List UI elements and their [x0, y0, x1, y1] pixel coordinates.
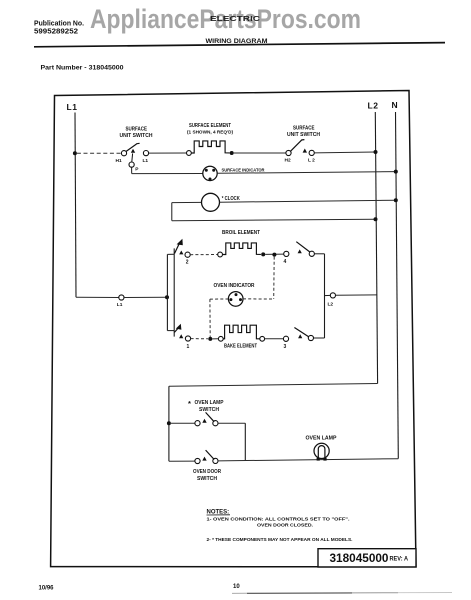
svg-text:OVEN DOOR CLOSED.: OVEN DOOR CLOSED.: [257, 523, 313, 528]
svg-text:BAKE ELEMENT: BAKE ELEMENT: [224, 344, 257, 350]
svg-text:1: 1: [187, 344, 190, 350]
svg-text:SWITCH: SWITCH: [197, 476, 217, 482]
title WIRING DIAGRAM: [206, 38, 268, 45]
svg-text:L 2: L 2: [308, 158, 315, 164]
svg-text:318045000: 318045000: [330, 551, 389, 565]
oven lamp: [314, 443, 329, 460]
footer rule: [232, 592, 452, 595]
svg-text:SWITCH: SWITCH: [199, 407, 219, 413]
wire L1 to H1: [77, 152, 122, 154]
oven lamp label: [306, 435, 338, 441]
svg-text:*: *: [188, 399, 191, 408]
svg-text:SURFACE ELEMENT: SURFACE ELEMENT: [189, 123, 231, 129]
wire switch3 to right rail: [314, 337, 325, 339]
wire lamp switch output: [218, 423, 245, 461]
node N label: [392, 100, 398, 110]
bake element: [218, 325, 264, 341]
wire bake to switch3: [265, 338, 284, 340]
svg-text:2- * THESE COMPONENTS MAY NOT: 2- * THESE COMPONENTS MAY NOT APPEAR ON …: [207, 537, 353, 542]
junction on L1 bus: [73, 151, 77, 155]
wire switch2 to broil: [190, 254, 218, 256]
svg-text:L1: L1: [67, 102, 78, 112]
junction on N bus row2: [394, 170, 398, 174]
svg-text:2: 2: [186, 259, 189, 265]
junction on L2 bus row1: [374, 150, 378, 154]
wire L1 feed to oven rail: [76, 295, 167, 300]
publication number block: [34, 21, 84, 36]
svg-text:10/96: 10/96: [39, 586, 55, 592]
diagram border frame: [51, 91, 416, 567]
svg-text:L1: L1: [117, 302, 123, 308]
svg-text:OVEN INDICATOR: OVEN INDICATOR: [214, 283, 255, 289]
svg-text:5995289252: 5995289252: [34, 29, 78, 36]
broil element: [218, 243, 266, 257]
svg-text:UNIT SWITCH: UNIT SWITCH: [287, 132, 320, 138]
svg-text:OVEN DOOR: OVEN DOOR: [193, 469, 221, 475]
junction broil output: [272, 253, 276, 257]
model text overlay: [210, 16, 260, 23]
svg-text:BROIL ELEMENT: BROIL ELEMENT: [222, 230, 260, 236]
header rule: [34, 43, 445, 47]
pin L2: [308, 158, 315, 164]
svg-text:Publication No.: Publication No.: [34, 21, 84, 28]
footer date: [39, 586, 55, 592]
svg-text:1- OVEN CONDITION: ALL CONTROL: 1- OVEN CONDITION: ALL CONTROLS SET TO "…: [207, 517, 350, 522]
pin H1: [116, 158, 122, 164]
pin H2: [285, 158, 291, 164]
pin P label: [135, 167, 139, 173]
wire oven left rail: [167, 248, 174, 336]
oven switch 4: [284, 242, 315, 257]
svg-text:ELECTRIC: ELECTRIC: [210, 16, 260, 23]
svg-text:(1 SHOWN, 4 REQ'D): (1 SHOWN, 4 REQ'D): [187, 130, 233, 135]
bake element label: [224, 344, 257, 350]
wire L2 stub: [325, 293, 377, 298]
svg-text:SURFACE INDICATOR: SURFACE INDICATOR: [222, 167, 265, 173]
junction on L2 bus row4: [374, 217, 378, 221]
oven indicator label: [214, 283, 255, 289]
wire oven right rail: [324, 254, 326, 338]
svg-text:4: 4: [284, 259, 287, 265]
svg-text:OVEN LAMP: OVEN LAMP: [195, 400, 225, 406]
svg-text:Part Number - 318045000: Part Number - 318045000: [41, 65, 125, 72]
surface element: [187, 141, 234, 156]
svg-text:3: 3: [284, 344, 287, 350]
svg-text:WIRING DIAGRAM: WIRING DIAGRAM: [206, 38, 268, 45]
watermark AppliancePartsPros.com: [90, 4, 361, 34]
oven door switch label: [193, 469, 221, 482]
wire L2 contact to L2 bus: [314, 151, 375, 154]
pin P stub: [129, 153, 134, 173]
oven switch 1: [174, 324, 190, 341]
oven door switch: [169, 450, 218, 464]
surface unit switch right: [286, 140, 314, 156]
surface element labels: [187, 123, 233, 135]
svg-text:L2: L2: [368, 101, 379, 111]
wire switch4 to right rail: [314, 253, 324, 255]
node L2 label: [368, 101, 379, 111]
footer page number: [233, 584, 240, 590]
broil element label: [222, 230, 260, 236]
svg-text:N: N: [392, 100, 398, 110]
pin 1: [187, 344, 190, 350]
part number box: [318, 549, 416, 567]
wire clock loop to L2: [172, 203, 376, 221]
svg-text:L1: L1: [143, 158, 149, 164]
svg-text:OVEN LAMP: OVEN LAMP: [306, 435, 338, 441]
wire switch1 to bake: [191, 338, 208, 340]
oven switch 2: [175, 239, 191, 257]
svg-text:H1: H1: [116, 158, 122, 164]
clock label: [222, 196, 240, 202]
svg-text:L2: L2: [328, 301, 334, 307]
wire L2 bus vertical: [375, 112, 377, 384]
junction oven rail feed: [165, 295, 169, 299]
node L2 mid label: [328, 301, 334, 307]
surface unit switch left: [121, 143, 148, 155]
oven switch 3: [283, 328, 313, 342]
surface unit switch left label: [120, 127, 153, 139]
svg-text:UNIT SWITCH: UNIT SWITCH: [120, 133, 153, 139]
node L1 mid label: [117, 302, 123, 308]
oven lamp switch label: [188, 399, 224, 413]
wire broil to junction: [265, 253, 284, 255]
part number line: [41, 65, 125, 72]
svg-text:REV: A: REV: A: [390, 557, 409, 563]
junction lamp rail: [167, 421, 171, 425]
oven indicator lamp: [210, 292, 274, 307]
svg-text:* CLOCK: * CLOCK: [222, 196, 240, 202]
wire switch to element: [149, 152, 187, 154]
notes block: [207, 510, 353, 543]
pin L1: [143, 158, 149, 164]
wire door switch to N: [218, 459, 398, 461]
surface indicator label: [222, 167, 265, 173]
junction bake input: [208, 337, 212, 341]
svg-text:SURFACE: SURFACE: [293, 126, 315, 132]
surface indicator lamp: [132, 166, 396, 180]
pin 2: [186, 259, 189, 265]
wire lamp feed from L2: [169, 384, 378, 462]
wire junction to bake element: [212, 338, 218, 340]
wire junction down to indicator: [273, 257, 276, 299]
pin 3: [284, 344, 287, 350]
svg-text:10: 10: [233, 584, 240, 590]
wire element to H2: [234, 152, 286, 154]
svg-text:SURFACE: SURFACE: [126, 127, 148, 133]
oven lamp switch: [171, 412, 218, 425]
surface unit switch right label: [287, 126, 320, 138]
wire indicator left down to bake: [209, 299, 211, 337]
wire L1 bus vertical: [75, 113, 76, 298]
node L1 label: [67, 102, 78, 112]
pin 4: [284, 259, 287, 265]
svg-text:H2: H2: [285, 158, 291, 164]
clock motor: [172, 193, 396, 211]
wire N bus vertical: [396, 112, 399, 459]
junction on N bus row3: [394, 198, 398, 202]
